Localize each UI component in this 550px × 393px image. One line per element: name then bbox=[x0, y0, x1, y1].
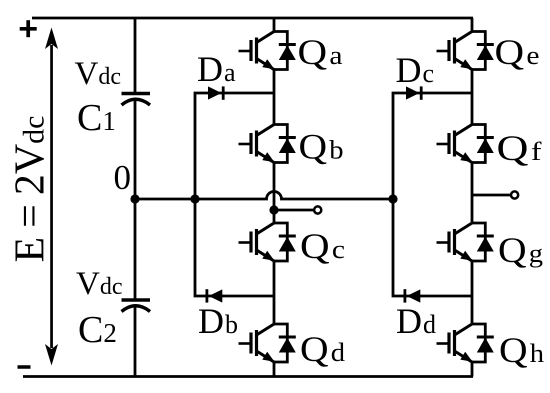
transistor Qe bbox=[437, 32, 494, 70]
wire left bus middle bbox=[134, 100, 137, 301]
transistor Qh bbox=[437, 324, 494, 362]
wire output stub leg 1 bbox=[274, 209, 313, 212]
transistor Qg bbox=[437, 223, 494, 261]
transistor Qd bbox=[239, 324, 296, 362]
wire leg2 Qg-Qh bbox=[471, 262, 474, 324]
capacitor C1 bbox=[122, 94, 151, 106]
svg-text:0: 0 bbox=[114, 158, 132, 197]
output terminal leg 1 bbox=[314, 206, 321, 213]
wire clamp column leg 1 with Da/Db stubs bbox=[195, 93, 274, 296]
junction dot output leg 1 bbox=[269, 205, 278, 214]
wire leg1 bottom bbox=[273, 362, 276, 377]
wire top bus bbox=[32, 17, 473, 20]
wire leg1 top bbox=[273, 18, 276, 32]
wire left bus upper bbox=[134, 18, 137, 94]
output terminal leg 2 bbox=[511, 191, 518, 198]
wire output stub leg 2 bbox=[472, 194, 510, 197]
wire leg2 top bbox=[471, 18, 474, 32]
wire leg1 Qc-Qd bbox=[273, 262, 276, 324]
E measurement arrow bbox=[45, 28, 58, 366]
wire leg1 Qb-Qc bbox=[273, 163, 276, 223]
junction dot clamp column 1 bbox=[190, 194, 199, 203]
diode Dc bbox=[406, 86, 421, 99]
transistor Qb bbox=[239, 125, 296, 163]
wire left bus lower bbox=[134, 306, 137, 377]
diode Dd bbox=[405, 289, 420, 302]
capacitor C2 bbox=[122, 300, 151, 312]
diode Da bbox=[208, 86, 223, 99]
wire leg2 Qf-Qg bbox=[471, 163, 474, 223]
diode Db bbox=[207, 289, 222, 302]
wire clamp column leg 2 with Dc/Dd stubs bbox=[393, 93, 472, 296]
transistor Qa (IGBT with antiparallel diode) bbox=[239, 32, 296, 70]
node 0 junction dot bbox=[130, 194, 139, 203]
wire leg2 Qe-Qf bbox=[471, 70, 474, 125]
wire leg1 Qa-Qb bbox=[273, 70, 276, 125]
wire bottom bus bbox=[23, 375, 473, 378]
wire node-0 horizontal with hop over leg 1 bbox=[135, 192, 393, 199]
wire leg2 bottom bbox=[471, 362, 474, 377]
junction dot clamp column 2 bbox=[388, 194, 397, 203]
+ terminal label bbox=[20, 20, 37, 37]
- terminal label bbox=[18, 365, 31, 369]
transistor Qc bbox=[239, 223, 296, 261]
transistor Qf bbox=[437, 125, 494, 163]
